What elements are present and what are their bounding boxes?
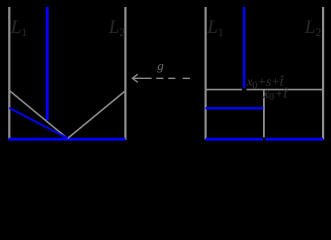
right panel gray horizontal left piece <box>206 89 242 91</box>
left panel gray diagonal from L1 to vertex <box>9 91 67 139</box>
right panel gray vertical segment <box>263 90 265 138</box>
right panel blue horizontal leaf <box>206 107 264 110</box>
left panel blue bottom horizontal <box>9 138 126 141</box>
label g on arrow <box>157 59 164 72</box>
left panel blue vertical leaf <box>46 7 49 120</box>
label L2 right panel <box>305 18 322 38</box>
left panel gray diagonal from L2 to vertex <box>68 91 126 139</box>
dashed arrow g pointing left <box>132 74 190 82</box>
left strip boundary line L1 <box>8 7 10 140</box>
right panel blue bottom horizontal right piece <box>265 138 323 141</box>
label x0+that <box>263 88 287 103</box>
label L1 right panel <box>207 18 224 38</box>
right panel blue vertical leaf <box>243 7 246 88</box>
label L2 left panel <box>109 18 126 38</box>
label x0+s+that <box>247 75 284 92</box>
right panel blue bottom horizontal left piece <box>206 138 263 141</box>
right panel gray horizontal right piece <box>247 89 324 91</box>
label L1 left panel <box>11 18 28 38</box>
right strip boundary line L2 <box>322 7 324 140</box>
left strip boundary line L2 <box>124 7 126 140</box>
left panel blue diagonal from L1 to vertex <box>9 108 68 138</box>
right strip boundary line L1 <box>205 7 207 140</box>
